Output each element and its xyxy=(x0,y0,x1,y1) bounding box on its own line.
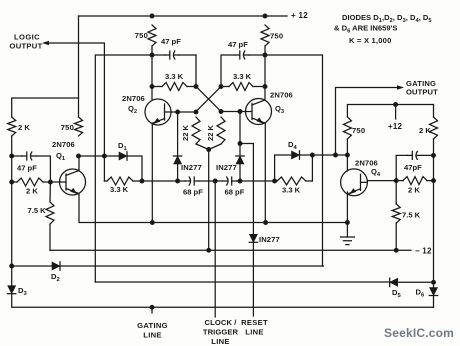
node D5/right column junction xyxy=(431,280,436,285)
resistor R-750-3 xyxy=(75,117,83,136)
transistor Q4 xyxy=(341,169,368,196)
label D2 xyxy=(51,272,60,283)
wire 3.3K-3 leads xyxy=(104,180,142,182)
diode D5 xyxy=(390,278,398,286)
svg-text:3.3 K: 3.3 K xyxy=(282,186,301,195)
svg-text:IN277: IN277 xyxy=(259,235,280,244)
capacitor C-47pF-3 xyxy=(22,152,36,160)
svg-text:LINE: LINE xyxy=(211,337,230,346)
label 7.5K-2 xyxy=(402,211,421,220)
node Q1 collector xyxy=(76,154,81,159)
wire Q4 base line xyxy=(367,180,396,182)
svg-text:IN277: IN277 xyxy=(181,163,202,172)
resistor R-750-2 xyxy=(261,25,269,46)
node Q2 collector xyxy=(150,84,155,89)
svg-text:7.5 K: 7.5 K xyxy=(28,206,47,215)
node Q3 base/22K junction xyxy=(219,109,224,114)
label +12 gating xyxy=(388,122,403,131)
svg-text:LINE: LINE xyxy=(245,328,264,337)
wire Q4 emitter lead xyxy=(346,192,348,223)
node left col base junction xyxy=(9,180,14,185)
resistor R-2K-2 xyxy=(430,117,438,139)
svg-text:RESET: RESET xyxy=(241,318,268,327)
wire Q3 base line xyxy=(221,111,246,113)
label 3.3K-3 xyxy=(110,185,129,194)
label 2N706 Q2 xyxy=(122,94,145,115)
wire diode D-1N277-2 column xyxy=(239,112,241,156)
node 68pF-1 left xyxy=(175,179,180,184)
svg-text:CLOCK /: CLOCK / xyxy=(205,318,238,327)
wire 2K-3 leads xyxy=(12,181,51,183)
node clock tap xyxy=(213,179,218,184)
wire 7.5K right bottom lead xyxy=(395,223,397,250)
label 1N277-5 xyxy=(259,235,280,244)
svg-text:GATING: GATING xyxy=(137,321,168,330)
wire +12 stub lead xyxy=(395,105,397,120)
wire 750-4 bottom lead xyxy=(346,139,348,155)
svg-text:LOGIC: LOGIC xyxy=(14,33,40,42)
resistor R-2K-4 xyxy=(403,177,427,185)
svg-text:+ 12: + 12 xyxy=(291,11,308,20)
transistor Q2 xyxy=(145,99,171,125)
logic output arrow xyxy=(10,33,50,51)
resistor R-3.3K-3 xyxy=(107,177,133,185)
wire 7.5K left bottom lead xyxy=(49,224,51,250)
wire diode D-1N277-1 column xyxy=(177,112,179,155)
svg-text:LINE: LINE xyxy=(143,331,162,340)
wire 1N277-1 bottom lead xyxy=(177,164,179,181)
resistor R-2K-3 xyxy=(17,178,43,186)
label 68pF-2 xyxy=(225,188,245,197)
node 68pF-2 right xyxy=(238,179,243,184)
label 2K-2 xyxy=(419,126,431,135)
node 750 bottom left xyxy=(150,53,155,58)
wire 68pF coupling line xyxy=(142,180,275,182)
wire D4 right link xyxy=(300,154,336,156)
label reset line xyxy=(241,318,268,337)
ground xyxy=(340,237,354,245)
wire Q2 base line xyxy=(171,111,196,113)
node gating/collector line xyxy=(333,153,338,158)
legend diodes note xyxy=(334,13,432,45)
wire Q1 collector to logic node xyxy=(79,155,105,157)
wire Q3 emitter lead xyxy=(264,124,266,223)
wire ground stub xyxy=(346,223,348,238)
node Q3 base/diode junction xyxy=(238,109,243,114)
wire D2 line riser join xyxy=(322,265,325,267)
wire cross-couple diagonal A xyxy=(196,87,221,112)
wire cross-couple diagonal B xyxy=(196,87,221,112)
svg-text:− 12: − 12 xyxy=(415,247,432,256)
wire Q2 emitter lead xyxy=(151,124,153,223)
svg-text:2N706: 2N706 xyxy=(52,140,75,149)
resistor R-22K-2 xyxy=(217,117,225,144)
label 2K-3 xyxy=(26,187,38,196)
svg-text:2N706: 2N706 xyxy=(270,91,293,100)
wire gating bottom rail xyxy=(152,306,434,308)
label 750-2 xyxy=(270,32,283,41)
label D5 xyxy=(392,288,401,299)
wire 22K merge xyxy=(196,144,221,250)
svg-text:22 K: 22 K xyxy=(181,124,190,141)
svg-text:47 pF: 47 pF xyxy=(161,37,181,46)
resistor R-3.3K-4 xyxy=(277,177,306,185)
svg-text:3.3 K: 3.3 K xyxy=(110,185,129,194)
label 750-4 xyxy=(352,126,365,135)
node +12/750 right junction xyxy=(263,14,268,19)
diode D1 xyxy=(119,152,127,160)
diode D-1N277-2 xyxy=(236,156,244,164)
node 750 bottom right xyxy=(263,53,268,58)
diode D-1N277-1 xyxy=(173,156,181,164)
transistor Q3 xyxy=(246,99,272,125)
node 7.5K right on -12 rail xyxy=(394,248,399,253)
node Q2 base/22K junction xyxy=(194,110,199,115)
node gating line tap xyxy=(150,305,155,313)
node Q4 emitter on rail xyxy=(345,220,350,225)
wire 3.3K-1 leads xyxy=(152,86,196,88)
wire Q1 collector lead xyxy=(78,156,80,171)
node Q2 emitter on rail xyxy=(150,220,155,225)
wire 3.3K-4 leads xyxy=(275,180,313,182)
svg-text:OUTPUT: OUTPUT xyxy=(10,42,43,51)
wire D1 parallel loop xyxy=(104,156,142,181)
label +12 top xyxy=(291,11,308,20)
watermark xyxy=(384,326,454,340)
label 22K-1 xyxy=(181,124,190,141)
svg-text:2 K: 2 K xyxy=(408,186,420,195)
wire 2K-4 leads xyxy=(396,180,433,182)
node D4 cathode junction xyxy=(310,153,315,158)
node logic output node xyxy=(102,154,107,159)
wire 7.5K left top lead xyxy=(49,182,51,202)
svg-text:+12: +12 xyxy=(388,122,403,131)
wire clock line xyxy=(214,181,216,317)
node Q2 base/diode junction xyxy=(175,110,180,115)
gating output arrow xyxy=(397,79,438,97)
label 7.5K-1 xyxy=(28,206,47,215)
svg-text:3.3 K: 3.3 K xyxy=(165,72,184,81)
diode D2 xyxy=(52,262,60,270)
svg-text:750: 750 xyxy=(352,126,365,135)
label 2N706 Q3 xyxy=(270,91,293,116)
node 47pF-4 right xyxy=(431,153,436,158)
label 22K-2 xyxy=(206,124,215,141)
node 2K-4 right xyxy=(431,178,436,183)
wire 3.3K-4 right corner xyxy=(311,155,313,181)
label 47pF-4 xyxy=(404,163,422,172)
label D4 xyxy=(288,140,297,151)
wire 2K top line xyxy=(12,98,79,117)
node +12 stub xyxy=(393,102,398,107)
label 68pF-1 xyxy=(183,188,203,197)
wire D4 left stub xyxy=(275,155,292,181)
label 750-1 xyxy=(135,31,148,40)
node Q3 collector xyxy=(263,84,268,89)
wire 3.3K-2 leads xyxy=(221,86,265,88)
node +12/750 junction xyxy=(150,14,155,19)
label 47pF-2 xyxy=(228,40,248,49)
wire right 2K-v bottom lead xyxy=(433,139,435,282)
svg-text:3.3 K: 3.3 K xyxy=(233,72,252,81)
label D3 xyxy=(18,286,27,297)
wire Q1 base lead xyxy=(50,181,59,183)
svg-text:22 K: 22 K xyxy=(206,124,215,141)
wire gating output line xyxy=(336,88,398,156)
node D2 junction xyxy=(9,264,14,269)
wire +12 left drop to 750/2K line xyxy=(78,16,80,117)
svg-text:750: 750 xyxy=(61,123,74,132)
node D4/3.3K left junction xyxy=(272,179,277,184)
wire 1N277-2 bottom lead xyxy=(239,160,241,181)
node Q4 collector xyxy=(345,153,350,158)
node right 3.3K left end xyxy=(219,84,224,89)
wire D2 line xyxy=(12,265,324,267)
node Q4 base junction xyxy=(394,178,399,183)
label 3.3K-1 xyxy=(165,72,184,81)
svg-text:2 K: 2 K xyxy=(18,123,30,132)
svg-text:SeekIC.com: SeekIC.com xyxy=(384,326,454,340)
label 2K-4 xyxy=(408,186,420,195)
node left 3.3K right end xyxy=(194,84,199,89)
svg-text:K = X 1,000: K = X 1,000 xyxy=(349,36,392,45)
node 22K on -12 rail xyxy=(206,248,211,253)
diode D4 xyxy=(292,151,300,159)
svg-text:TRIGGER: TRIGGER xyxy=(203,328,239,337)
svg-text:47pF: 47pF xyxy=(404,163,422,172)
label 1N277-1 xyxy=(181,163,202,172)
svg-text:OUTPUT: OUTPUT xyxy=(406,88,438,97)
label 2K-1 xyxy=(18,123,30,132)
resistor R-750-4 xyxy=(343,117,351,139)
resistor R-3.3K-2 xyxy=(229,83,253,91)
capacitor C-68pF-2 xyxy=(223,177,237,185)
node reset tap xyxy=(238,141,243,146)
svg-text:7.5 K: 7.5 K xyxy=(402,211,421,220)
svg-text:750: 750 xyxy=(135,31,148,40)
wire 47pF left to coupling node xyxy=(195,55,197,87)
capacitor C-68pF-1 xyxy=(185,177,199,185)
wire collector line Q2 xyxy=(151,87,153,100)
resistor R-22K-1 xyxy=(192,117,200,144)
wire left input cap line xyxy=(12,156,51,182)
label 750-3 xyxy=(61,123,74,132)
label 2N706 Q1 xyxy=(52,140,75,162)
wire collector line Q3 xyxy=(264,87,266,100)
wire logic output line xyxy=(45,43,104,156)
svg-text:2 K: 2 K xyxy=(419,126,431,135)
node Q3 emitter on rail xyxy=(263,220,268,225)
label 47pF-1 xyxy=(161,37,181,46)
resistor R-2K-1 xyxy=(8,117,16,136)
wire +12 top rail xyxy=(79,15,288,17)
label 3.3K-4 xyxy=(282,186,301,195)
label -12 right xyxy=(415,247,432,256)
wire 47pF right branch xyxy=(221,46,323,266)
svg-text:IN277: IN277 xyxy=(216,163,237,172)
capacitor C-47pF-2 xyxy=(235,51,249,59)
wire reset jog xyxy=(240,144,253,317)
wire D5 line xyxy=(95,281,433,283)
svg-text:47 pF: 47 pF xyxy=(17,164,37,173)
node Q1 base junction xyxy=(48,180,53,185)
node D1/3.3K-3 right junction xyxy=(140,179,145,184)
wire 7.5K right column xyxy=(395,181,397,204)
wire 47pF-4 line xyxy=(396,155,433,180)
label D6 xyxy=(416,288,425,299)
svg-text:68 pF: 68 pF xyxy=(183,188,203,197)
wire -12 rail xyxy=(50,249,411,251)
wire Q4 collector link xyxy=(336,155,348,171)
resistor R-7.5K-1 xyxy=(46,202,54,224)
label 3.3K-2 xyxy=(233,72,252,81)
resistor R-7.5K-2 xyxy=(392,204,400,223)
wire D3 leads xyxy=(12,266,152,307)
wire left col mid xyxy=(11,136,13,266)
svg-text:47 pF: 47 pF xyxy=(228,40,248,49)
diode D-1N277-5 xyxy=(249,234,257,242)
resistor R-3.3K-1 xyxy=(162,83,187,91)
label 1N277-2 xyxy=(216,163,237,172)
svg-text:2 K: 2 K xyxy=(26,187,38,196)
node left col cap junction xyxy=(9,154,14,159)
svg-text:750: 750 xyxy=(270,32,283,41)
resistor R-750-1 xyxy=(148,25,156,46)
svg-text:2N706: 2N706 xyxy=(122,94,145,103)
label D1 xyxy=(118,141,127,152)
label 47pF-3 xyxy=(17,164,37,173)
capacitor C-47pF-1 xyxy=(165,51,179,59)
wire 47pF left branch xyxy=(95,46,196,282)
capacitor C-47pF-4 xyxy=(408,151,422,159)
label gating line xyxy=(137,321,168,340)
label 2N706 Q4 xyxy=(355,159,381,179)
label clock trigger line xyxy=(203,318,239,346)
wire gating box top xyxy=(347,105,433,118)
wire D6 leads xyxy=(433,282,435,307)
wire emitter rail xyxy=(79,195,347,223)
diode D3 xyxy=(8,286,16,294)
transistor Q1 xyxy=(60,169,86,195)
svg-text:68 pF: 68 pF xyxy=(225,188,245,197)
diode D6 xyxy=(429,288,437,296)
